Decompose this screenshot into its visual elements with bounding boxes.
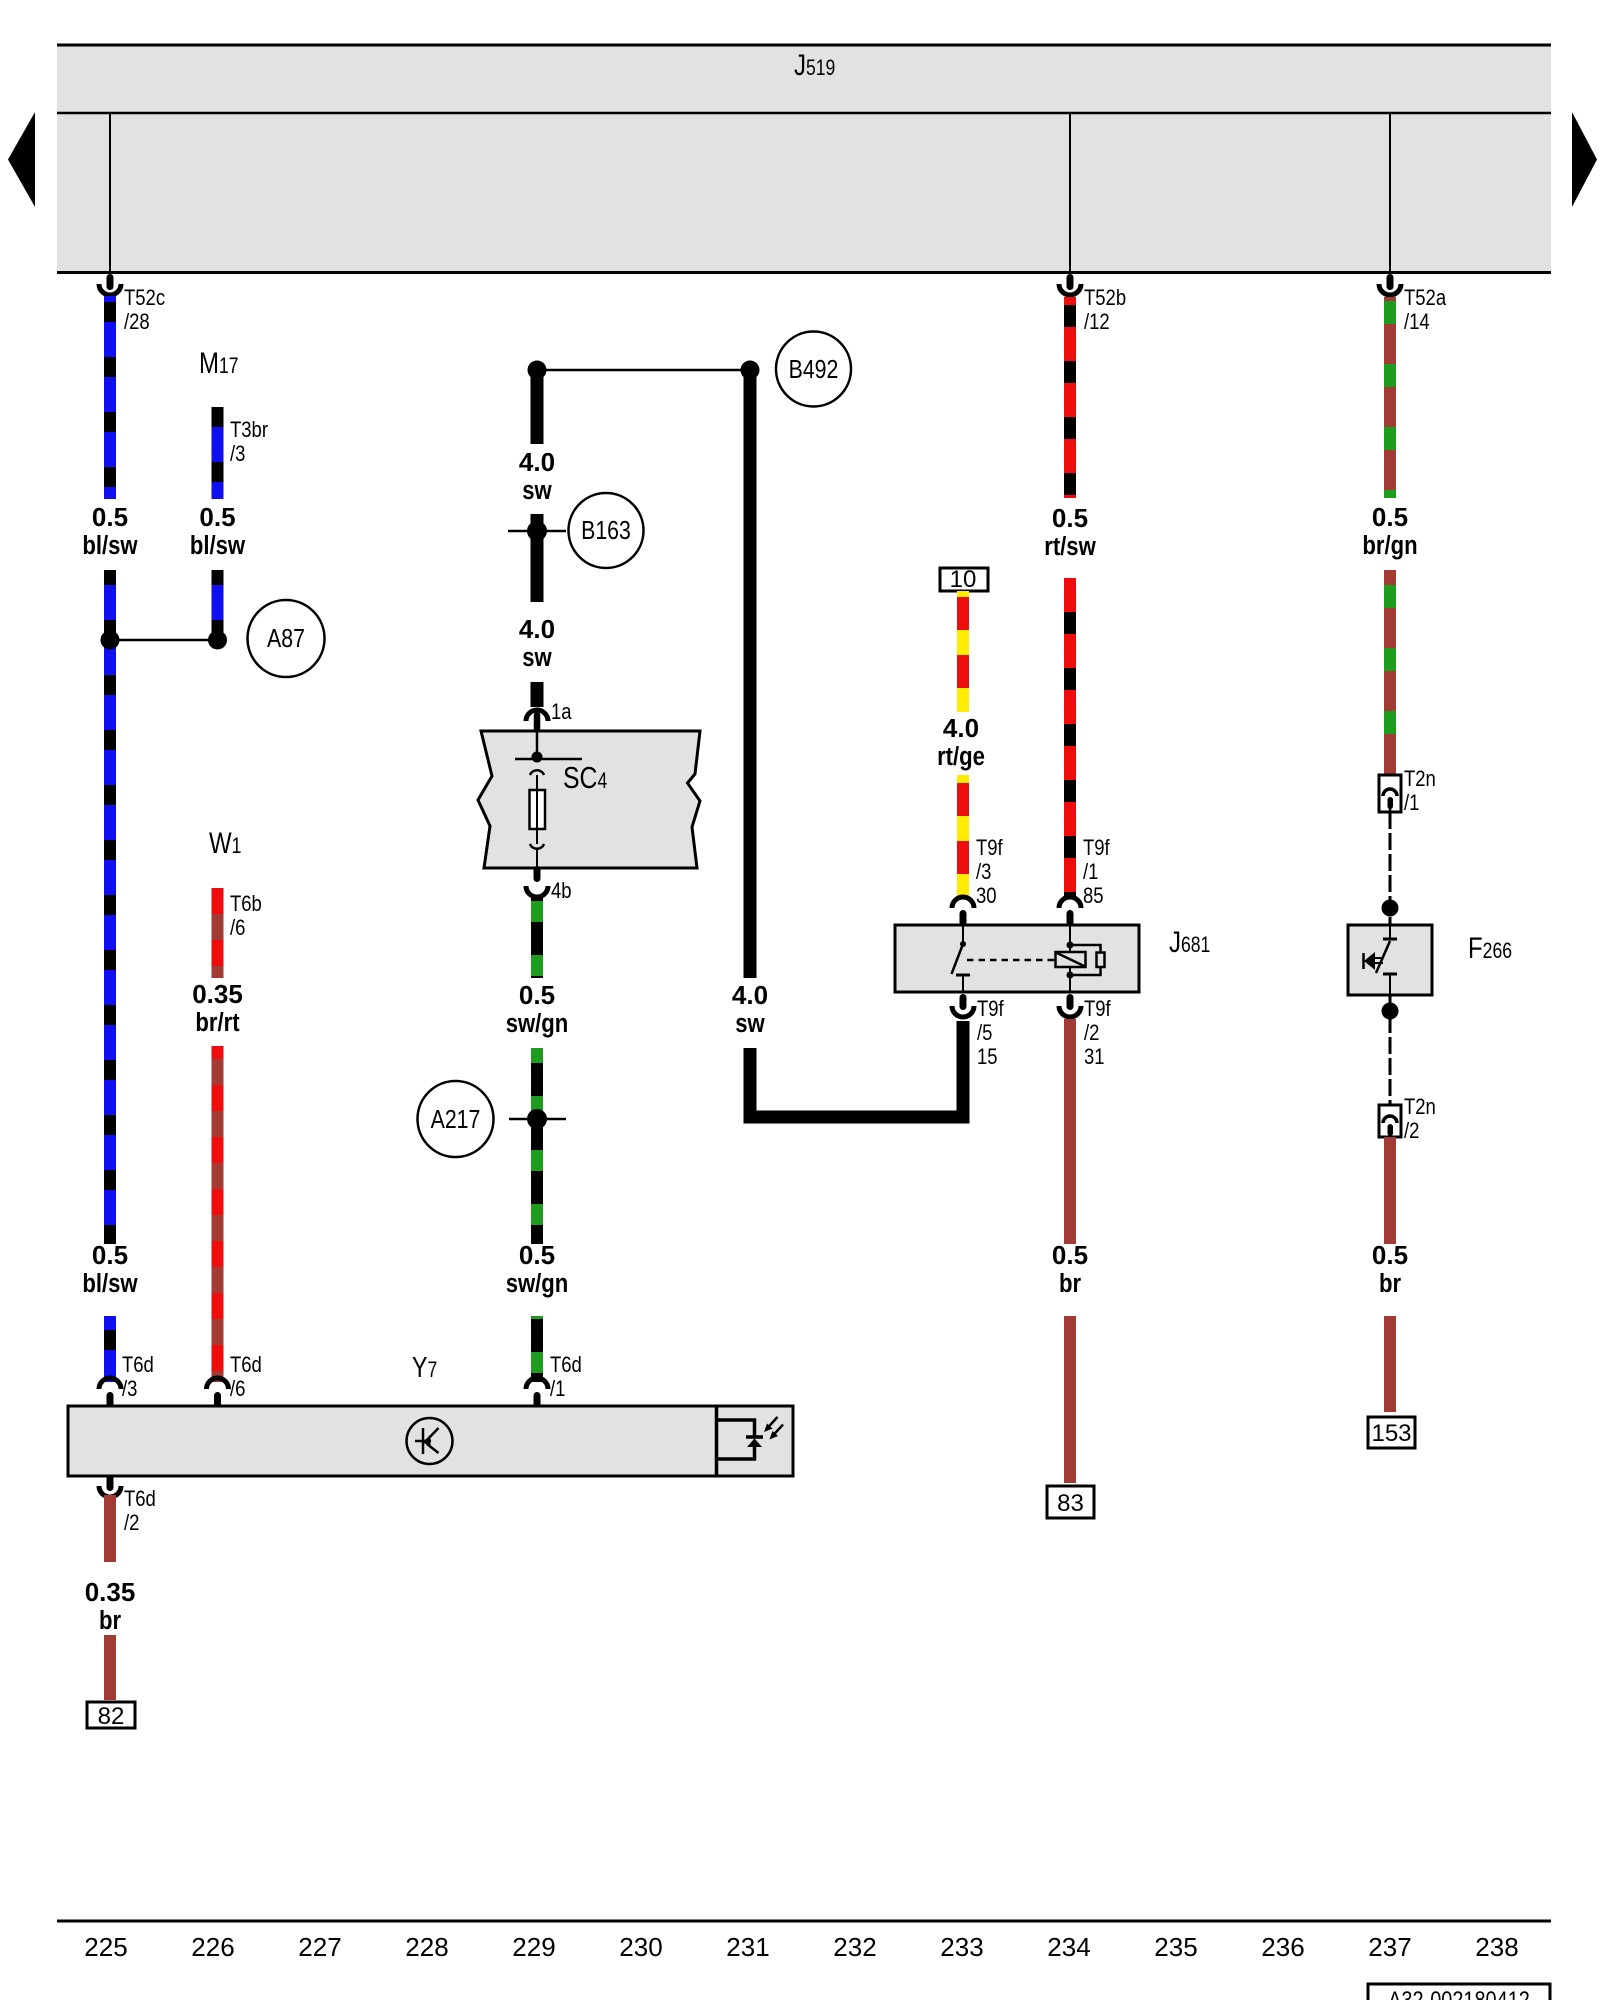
svg-text:0.5: 0.5 bbox=[1052, 503, 1088, 533]
svg-text:231: 231 bbox=[726, 1932, 769, 1962]
svg-text:0.5: 0.5 bbox=[519, 1240, 555, 1270]
relay coil lead top bbox=[1069, 926, 1071, 952]
SC4 lead to fuse bbox=[536, 775, 538, 790]
svg-text:85: 85 bbox=[1083, 885, 1104, 909]
svg-text:B492: B492 bbox=[789, 355, 839, 385]
svg-text:T6b: T6b bbox=[230, 893, 262, 917]
svg-text:br: br bbox=[99, 1606, 122, 1635]
svg-text:B163: B163 bbox=[581, 516, 631, 546]
svg-text:bl/sw: bl/sw bbox=[190, 531, 245, 560]
wire 0.35 br/rt seg B bbox=[212, 1046, 224, 1382]
relay switch blade bbox=[952, 944, 964, 974]
connector T9f/1 cup bbox=[1059, 897, 1081, 908]
ground box 82 bbox=[87, 1702, 135, 1728]
continuation arrow left bbox=[8, 112, 35, 207]
SC4 contact arc top bbox=[530, 770, 544, 775]
svg-text:235: 235 bbox=[1154, 1932, 1197, 1962]
control unit J519 box bbox=[57, 44, 1551, 274]
Y7 motor circle bbox=[407, 1418, 453, 1464]
svg-text:sw/gn: sw/gn bbox=[506, 1009, 569, 1038]
wire 0.5 bl/sw col1 seg C bbox=[104, 1316, 116, 1382]
node circle A87 bbox=[248, 600, 325, 677]
svg-text:/1: /1 bbox=[550, 1378, 565, 1402]
relay switch contact bar bbox=[956, 974, 970, 977]
relay coil lower lead bbox=[1069, 967, 1071, 992]
svg-text:0.5: 0.5 bbox=[1052, 1240, 1088, 1270]
svg-text:/3: /3 bbox=[976, 861, 991, 885]
T2n/1 pin bbox=[1388, 797, 1394, 809]
wire 0.5 sw/gn seg C bbox=[531, 1316, 543, 1382]
svg-text:226: 226 bbox=[191, 1932, 234, 1962]
wire 4.0 sw col3 seg C bbox=[531, 682, 544, 707]
connector 1a cup bbox=[526, 710, 548, 721]
node A217 tick line bbox=[509, 1118, 566, 1121]
svg-text:sw/gn: sw/gn bbox=[506, 1269, 569, 1298]
svg-text:/3: /3 bbox=[122, 1378, 137, 1402]
wire inside J519 to T52b bbox=[1069, 113, 1071, 276]
svg-text:/6: /6 bbox=[230, 1378, 245, 1402]
F266 bottom lead bbox=[1389, 974, 1391, 995]
wire 0.5 sw/gn seg A bbox=[531, 897, 543, 978]
svg-text:230: 230 bbox=[619, 1932, 662, 1962]
svg-text:bl/sw: bl/sw bbox=[82, 1269, 137, 1298]
wire inside J519 to T52c bbox=[109, 113, 111, 276]
svg-text:0.35: 0.35 bbox=[85, 1577, 136, 1607]
svg-text:/1: /1 bbox=[1404, 792, 1419, 816]
connector T6d/2 pin bbox=[107, 1475, 114, 1491]
svg-text:T6d: T6d bbox=[230, 1354, 262, 1378]
connector T9f/2 cup bbox=[1059, 1006, 1081, 1017]
svg-text:0.5: 0.5 bbox=[519, 980, 555, 1010]
connector T6d/1 cup bbox=[526, 1378, 548, 1389]
connector T52a/14 pin bbox=[1387, 274, 1394, 290]
wire 0.5 sw/gn seg B bbox=[531, 1048, 543, 1244]
wire 0.35 br seg B bbox=[104, 1635, 116, 1700]
F266 actuator tail lines bbox=[1375, 957, 1383, 959]
F266 actuator bar bbox=[1362, 953, 1365, 969]
svg-text:236: 236 bbox=[1261, 1932, 1304, 1962]
Y7 motor icon diagonal lower bbox=[427, 1444, 439, 1453]
svg-text:238: 238 bbox=[1475, 1932, 1518, 1962]
connector T6d/6 pin bbox=[214, 1392, 221, 1408]
SC4 lead below fuse bbox=[536, 829, 538, 844]
F266 blade bbox=[1376, 941, 1390, 973]
connector T6d/1 pin bbox=[534, 1392, 541, 1408]
F266 top lead bbox=[1389, 925, 1391, 938]
T2n/2 socket arc bbox=[1383, 1116, 1397, 1123]
svg-text:br: br bbox=[1379, 1269, 1402, 1298]
node circle B163 bbox=[569, 493, 644, 568]
connector T6d/2 cup bbox=[99, 1486, 121, 1497]
svg-text:T6d: T6d bbox=[122, 1354, 154, 1378]
relay coil bottom dot bbox=[1067, 972, 1074, 979]
connector T52a/14 cup bbox=[1379, 284, 1401, 295]
Y7 photodiode cathode bar bbox=[746, 1435, 763, 1439]
wire 0.5 bl/sw col1 seg A bbox=[104, 296, 116, 499]
svg-text:T9f: T9f bbox=[1084, 998, 1111, 1022]
ground box 153 bbox=[1368, 1417, 1415, 1448]
svg-text:4b: 4b bbox=[551, 880, 572, 904]
node wire B492 horizontal bbox=[537, 369, 750, 372]
switch F266 box bbox=[1348, 925, 1432, 995]
svg-text:/3: /3 bbox=[230, 443, 245, 467]
wire 0.5 br col6 seg A bbox=[1064, 1019, 1076, 1244]
connector T52b/12 pin bbox=[1067, 274, 1074, 290]
svg-text:4.0: 4.0 bbox=[519, 614, 555, 644]
terminal box 10 bbox=[940, 568, 988, 591]
svg-text:83: 83 bbox=[1057, 1490, 1084, 1517]
Y7 photodiode light arrow 1 bbox=[767, 1417, 778, 1429]
svg-text:4.0: 4.0 bbox=[732, 980, 768, 1010]
wire inside J519 to T52a bbox=[1389, 113, 1391, 276]
relay switch pivot dot bbox=[960, 941, 966, 947]
svg-text:0.5: 0.5 bbox=[92, 502, 128, 532]
svg-text:T9f: T9f bbox=[1083, 837, 1110, 861]
connector T52b/12 cup bbox=[1059, 284, 1081, 295]
relay switch lead bbox=[962, 926, 964, 944]
wire 4.0 rt/ge seg A bbox=[957, 591, 969, 712]
svg-text:T2n: T2n bbox=[1404, 768, 1436, 792]
connector T9f/2 pin bbox=[1067, 994, 1074, 1010]
thin wire F266 to T2n/2 bbox=[1389, 995, 1392, 1105]
svg-text:A217: A217 bbox=[431, 1105, 481, 1135]
svg-text:234: 234 bbox=[1047, 1932, 1090, 1962]
node B163 dot bbox=[527, 521, 547, 541]
connector box T2n/1 bbox=[1379, 775, 1401, 812]
F266 actuator arrow bbox=[1364, 952, 1375, 970]
wire 0.5 br col6 seg B bbox=[1064, 1316, 1076, 1483]
svg-text:0.5: 0.5 bbox=[199, 502, 235, 532]
junction dot below F266 bbox=[1382, 1003, 1399, 1020]
Y7 photodiode light arrow 2 bbox=[773, 1425, 784, 1437]
F266 bottom contact bar bbox=[1383, 973, 1397, 976]
continuation arrow right bbox=[1572, 112, 1597, 207]
relay J681 box bbox=[895, 925, 1139, 992]
svg-text:227: 227 bbox=[298, 1932, 341, 1962]
svg-text:0.35: 0.35 bbox=[192, 979, 243, 1009]
SC4 internal tick line bbox=[515, 758, 582, 761]
svg-text:232: 232 bbox=[833, 1932, 876, 1962]
wire 0.5 rt/sw seg A bbox=[1064, 297, 1076, 498]
svg-text:/5: /5 bbox=[977, 1022, 992, 1046]
wire 0.5 br/gn seg A bbox=[1384, 297, 1396, 498]
F266 top contact bar bbox=[1383, 938, 1397, 941]
Y7 photodiode bracket bbox=[717, 1420, 755, 1459]
svg-text:4.0: 4.0 bbox=[943, 713, 979, 743]
fuse holder SC4 box bbox=[478, 731, 700, 868]
node B163 tick line bbox=[508, 530, 566, 533]
connector box T2n/2 bbox=[1379, 1105, 1401, 1137]
wire 0.5 bl/sw col1 seg B bbox=[104, 570, 116, 1244]
node circle B492 bbox=[776, 332, 851, 407]
node A217 dot bbox=[527, 1109, 547, 1129]
svg-text:15: 15 bbox=[977, 1046, 998, 1070]
svg-text:/6: /6 bbox=[230, 917, 245, 941]
connector T6d/3 cup bbox=[99, 1378, 121, 1389]
SC4 internal dot bbox=[532, 752, 543, 763]
svg-text:T6d: T6d bbox=[124, 1488, 156, 1512]
svg-text:10: 10 bbox=[950, 566, 977, 593]
SC4 internal lead top bbox=[536, 727, 539, 757]
svg-text:T2n: T2n bbox=[1404, 1096, 1436, 1120]
svg-text:T9f: T9f bbox=[976, 837, 1003, 861]
connector T9f/3 cup bbox=[952, 897, 974, 908]
svg-text:T9f: T9f bbox=[977, 998, 1004, 1022]
svg-text:4.0: 4.0 bbox=[519, 447, 555, 477]
connector 4b pin bbox=[534, 866, 541, 882]
relay resistor rect bbox=[1097, 953, 1105, 968]
Y7 divider line bbox=[715, 1406, 719, 1476]
Y7 photodiode triangle bbox=[747, 1439, 762, 1448]
wire 0.5 br col7 seg B bbox=[1384, 1316, 1396, 1412]
Y7 motor icon arrowhead bbox=[422, 1437, 431, 1447]
connector T9f/1 pin bbox=[1067, 910, 1074, 926]
svg-text:T52b: T52b bbox=[1084, 287, 1126, 311]
relay coil rect bbox=[1056, 952, 1086, 967]
svg-text:rt/ge: rt/ge bbox=[937, 742, 985, 771]
diagram id box A32-002180412 bbox=[1368, 1984, 1550, 2000]
svg-text:sw: sw bbox=[522, 643, 552, 672]
SC4 lead to box bottom bbox=[536, 849, 538, 868]
T2n/1 socket arc bbox=[1383, 789, 1397, 796]
junction dot col4 top bbox=[741, 361, 760, 380]
svg-text:/14: /14 bbox=[1404, 311, 1430, 335]
junction dot col2 bbox=[208, 631, 227, 650]
wire 4.0 sw col4 long bbox=[744, 376, 757, 978]
Y7 motor icon diagonal upper bbox=[426, 1428, 439, 1441]
Y7 motor icon horizontal bbox=[415, 1440, 431, 1443]
svg-text:br/rt: br/rt bbox=[195, 1008, 239, 1037]
svg-text:br/gn: br/gn bbox=[1362, 531, 1417, 560]
svg-text:T3br: T3br bbox=[230, 419, 268, 443]
svg-text:T6d: T6d bbox=[550, 1354, 582, 1378]
svg-text:82: 82 bbox=[98, 1703, 125, 1730]
wire 0.35 br seg A bbox=[104, 1495, 116, 1562]
svg-text:/2: /2 bbox=[124, 1512, 139, 1536]
ground box 83 bbox=[1047, 1486, 1094, 1518]
T2n/2 pin bbox=[1388, 1124, 1394, 1136]
T2n/1 lead bbox=[1389, 806, 1392, 812]
svg-text:225: 225 bbox=[84, 1932, 127, 1962]
svg-text:237: 237 bbox=[1368, 1932, 1411, 1962]
svg-text:/1: /1 bbox=[1083, 861, 1098, 885]
svg-text:229: 229 bbox=[512, 1932, 555, 1962]
svg-text:228: 228 bbox=[405, 1932, 448, 1962]
svg-text:/28: /28 bbox=[124, 311, 150, 335]
connector T52c/28 cup bbox=[99, 284, 121, 295]
J519 label strip separator bbox=[57, 112, 1551, 115]
SC4 contact arc bottom bbox=[530, 844, 544, 849]
connector 1a pin bbox=[534, 712, 541, 732]
svg-text:153: 153 bbox=[1371, 1420, 1411, 1447]
svg-text:233: 233 bbox=[940, 1932, 983, 1962]
svg-text:sw: sw bbox=[735, 1009, 765, 1038]
wire 0.5 bl/sw col2 T3br seg bbox=[212, 407, 224, 499]
svg-text:0.5: 0.5 bbox=[1372, 1240, 1408, 1270]
wire 0.5 br/gn seg B bbox=[1384, 570, 1396, 775]
fuse element SC4 bbox=[530, 790, 546, 829]
wire 0.5 bl/sw col2 seg B bbox=[212, 570, 224, 640]
relay actuation dashed line bbox=[967, 959, 1054, 962]
wire 4.0 sw col3 seg A bbox=[531, 376, 544, 444]
svg-text:T52c: T52c bbox=[124, 287, 165, 311]
svg-text:/12: /12 bbox=[1084, 311, 1110, 335]
relay resistor bracket bbox=[1070, 945, 1101, 975]
connector T9f/5 pin bbox=[960, 994, 967, 1010]
junction dot above F266 bbox=[1382, 900, 1399, 917]
actuator motor Y7 box bbox=[68, 1406, 793, 1476]
wire 4.0 sw col3 seg B bbox=[531, 514, 544, 602]
thin wire T2n/1 to F266 bbox=[1389, 812, 1392, 925]
wire 0.5 rt/sw seg B bbox=[1064, 578, 1076, 897]
svg-text:0.5: 0.5 bbox=[92, 1240, 128, 1270]
svg-text:30: 30 bbox=[976, 885, 997, 909]
junction wire A87 bbox=[110, 639, 218, 642]
Y7 motor icon vertical bbox=[422, 1428, 425, 1454]
junction dot col1 bbox=[101, 631, 120, 650]
svg-text:T52a: T52a bbox=[1404, 287, 1447, 311]
svg-text:sw: sw bbox=[522, 476, 552, 505]
connector T52c/28 pin bbox=[107, 274, 114, 290]
junction dot col3 top bbox=[528, 361, 547, 380]
connector T6d/3 pin bbox=[107, 1392, 114, 1408]
relay switch lower lead bbox=[962, 975, 964, 992]
connector T9f/3 pin bbox=[960, 910, 967, 926]
connector T9f/5 cup bbox=[952, 1006, 974, 1017]
connector T6d/6 cup bbox=[207, 1378, 229, 1389]
wire 4.0 rt/ge seg B bbox=[957, 775, 969, 897]
svg-text:br: br bbox=[1059, 1269, 1082, 1298]
bottom rule bbox=[57, 1920, 1551, 1923]
wire 0.35 br/rt T6b seg bbox=[212, 888, 224, 978]
svg-text:A87: A87 bbox=[267, 624, 305, 654]
svg-text:A32-002180412: A32-002180412 bbox=[1388, 1986, 1530, 2000]
svg-text:/2: /2 bbox=[1084, 1022, 1099, 1046]
svg-text:1a: 1a bbox=[551, 701, 572, 725]
node circle A217 bbox=[418, 1081, 494, 1157]
svg-text:bl/sw: bl/sw bbox=[82, 531, 137, 560]
relay coil top dot bbox=[1067, 942, 1074, 949]
relay coil diagonal bbox=[1057, 953, 1084, 966]
svg-text:31: 31 bbox=[1084, 1046, 1105, 1070]
svg-text:/2: /2 bbox=[1404, 1120, 1419, 1144]
svg-text:0.5: 0.5 bbox=[1372, 502, 1408, 532]
wire 4.0 sw col4 elbow to J681 bbox=[750, 1021, 963, 1117]
wire 0.5 br col7 seg A bbox=[1384, 1137, 1396, 1244]
connector 4b cup bbox=[526, 886, 548, 897]
svg-text:rt/sw: rt/sw bbox=[1044, 532, 1096, 561]
